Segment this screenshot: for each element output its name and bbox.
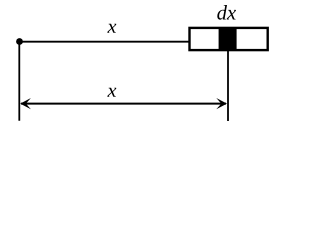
extension line right (from dx element): [227, 51, 229, 121]
extension line left (from pivot): [18, 43, 20, 121]
label dx: [217, 5, 236, 20]
element outline rectangle: [190, 28, 268, 50]
pivot point O: [16, 38, 23, 45]
wire: horizontal line from pivot to element: [20, 41, 190, 43]
label x (dimension, bottom): [107, 88, 116, 97]
dx element (black slice): [219, 28, 237, 50]
label x (distance along rod, top): [107, 24, 116, 33]
dimension arrow x (double-headed): [20, 98, 227, 109]
